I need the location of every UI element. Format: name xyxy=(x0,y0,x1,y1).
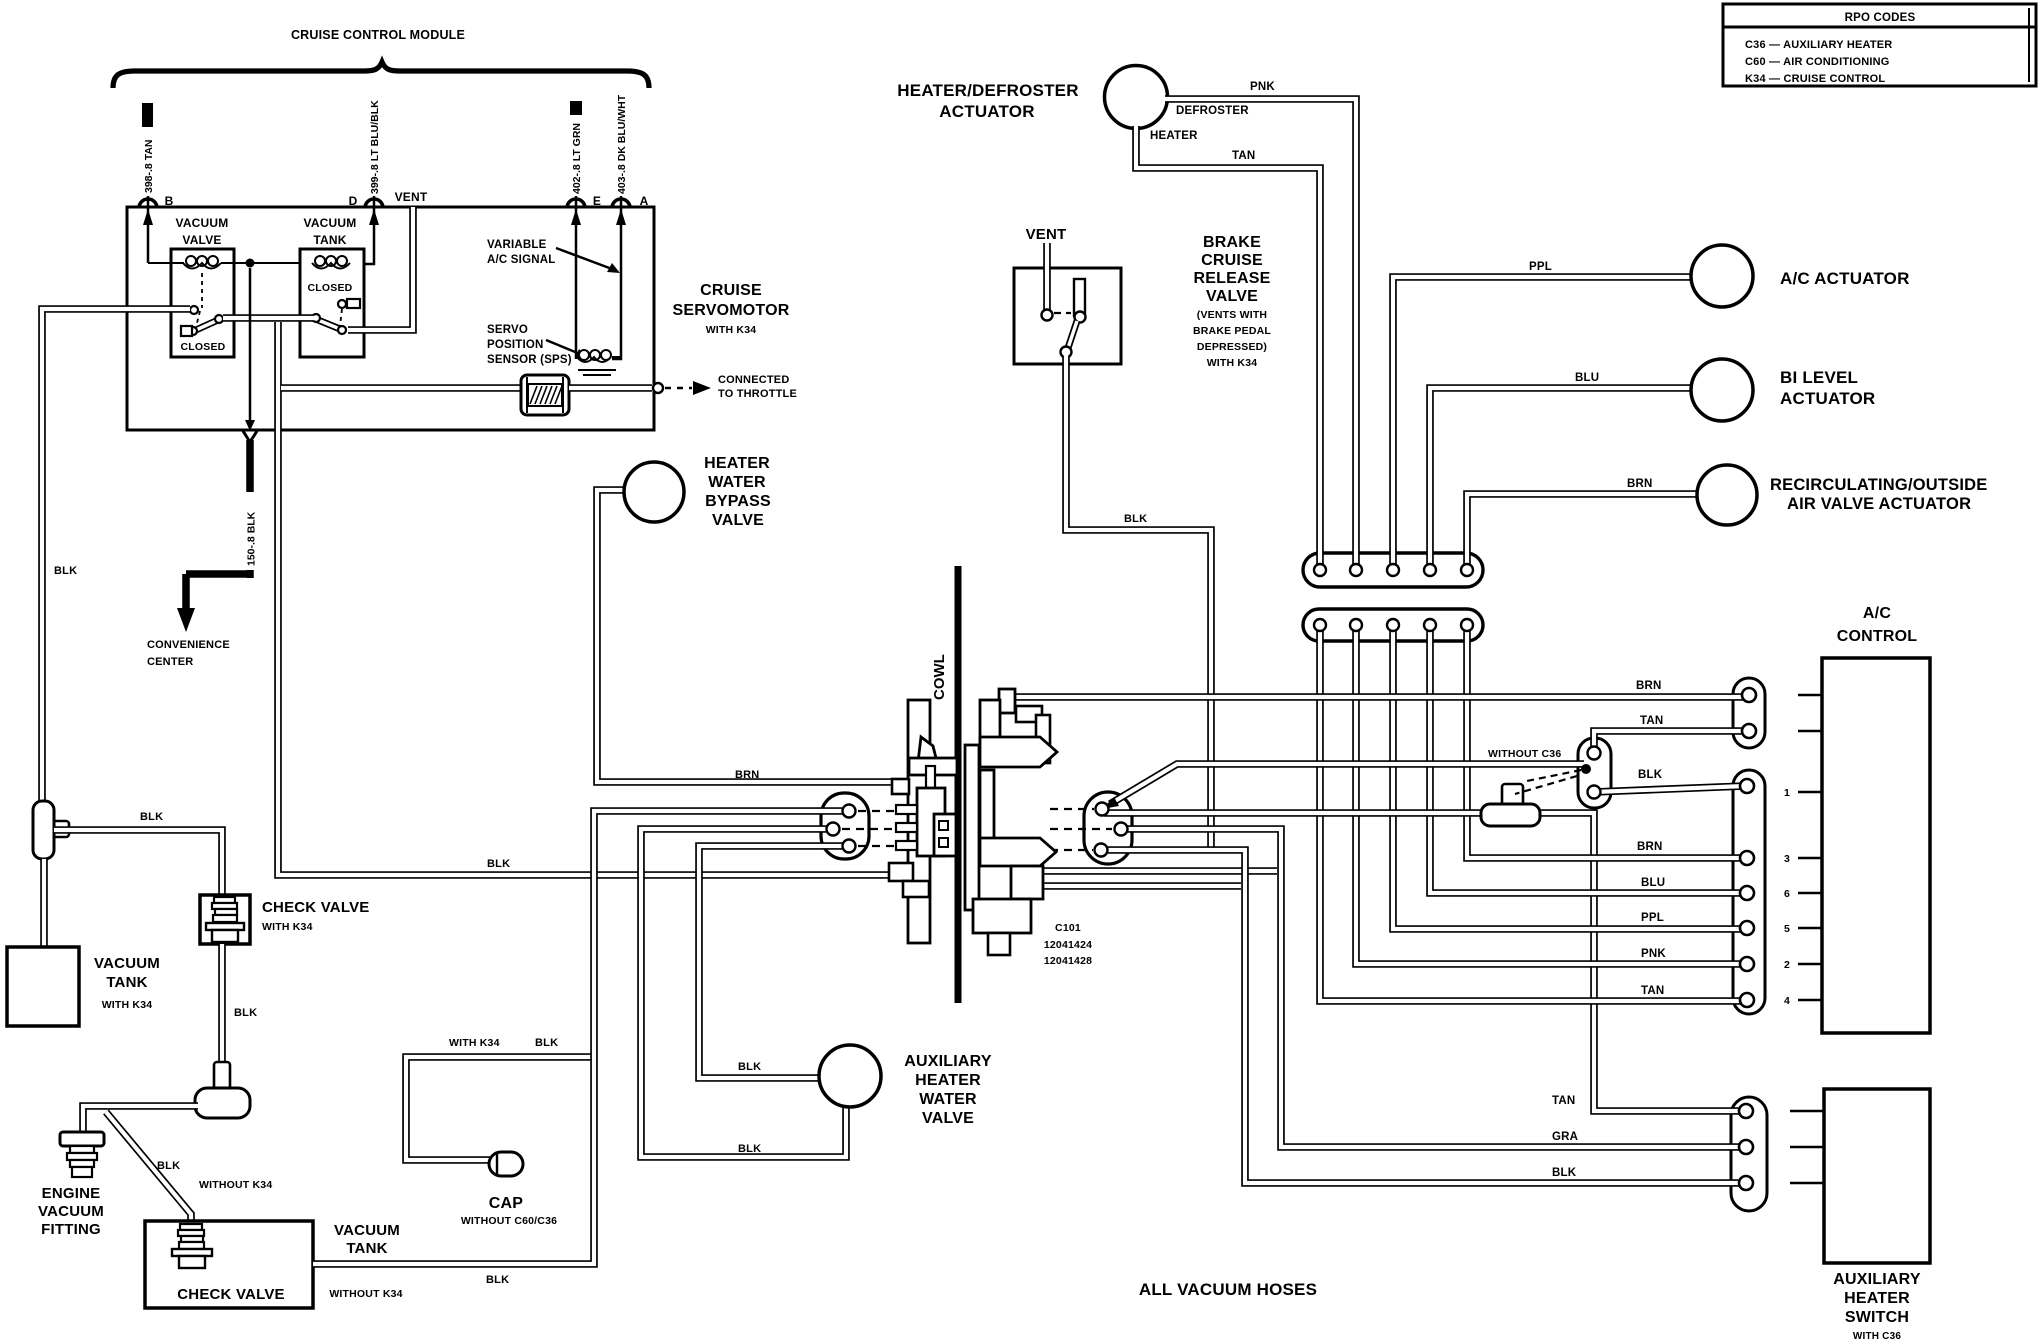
svg-text:6: 6 xyxy=(1784,888,1790,900)
hose oval pin3 to aux water valve left xyxy=(699,846,847,1078)
servo piston xyxy=(521,375,569,415)
svg-text:BRAKE PEDAL: BRAKE PEDAL xyxy=(1193,325,1271,337)
engine vacuum fitting xyxy=(60,1132,104,1146)
svg-text:VACUUM: VACUUM xyxy=(176,216,229,230)
hose V1 TAN manifold2 to AC control 4 xyxy=(1320,631,1745,1001)
svg-text:SENSOR (SPS): SENSOR (SPS) xyxy=(487,354,572,366)
left oval connector body xyxy=(821,793,869,859)
svg-text:12041424: 12041424 xyxy=(1044,939,1092,951)
svg-text:BYPASS: BYPASS xyxy=(705,493,771,510)
tee fitting right xyxy=(1502,784,1523,810)
vacuum valve coil xyxy=(148,262,184,264)
dashed link to throttle xyxy=(665,387,692,390)
cap symbol xyxy=(489,1152,523,1176)
tank flag symbol xyxy=(338,300,346,308)
svg-text:VARIABLE: VARIABLE xyxy=(487,239,547,251)
svg-text:VACUUM: VACUUM xyxy=(38,1203,104,1220)
svg-text:ENGINE: ENGINE xyxy=(42,1185,101,1202)
svg-text:E: E xyxy=(593,194,601,208)
svg-text:CENTER: CENTER xyxy=(147,656,193,668)
hose stadium top TAN to A2 xyxy=(1594,731,1747,750)
hose diagonal without K34 to check valve 2 xyxy=(106,1112,191,1222)
svg-text:TANK: TANK xyxy=(346,1240,387,1257)
coil junction line with dot xyxy=(221,262,312,264)
vacuum manifold 2 body xyxy=(1303,609,1483,641)
svg-text:VENT: VENT xyxy=(1026,226,1067,243)
svg-text:BLK: BLK xyxy=(738,1061,761,1073)
svg-text:PNK: PNK xyxy=(1641,948,1666,960)
svg-text:WITH K34: WITH K34 xyxy=(449,1037,500,1049)
sps arrow xyxy=(546,340,580,354)
servo position sensor coil xyxy=(579,350,589,360)
svg-text:CONNECTED: CONNECTED xyxy=(718,374,789,386)
check valve symbol 2 xyxy=(180,1224,202,1230)
hose module-left BLK down to tee xyxy=(42,309,190,802)
svg-text:BRN: BRN xyxy=(1636,680,1662,692)
cruise control module box xyxy=(127,207,654,430)
svg-text:C60 — AIR CONDITIONING: C60 — AIR CONDITIONING xyxy=(1745,56,1890,68)
svg-text:CRUISE: CRUISE xyxy=(1201,252,1263,269)
svg-text:BLK: BLK xyxy=(140,811,163,823)
hose P2 GRA to aux switch xyxy=(1123,829,1744,1147)
svg-text:150-.8 BLK: 150-.8 BLK xyxy=(246,511,258,566)
svg-text:BRAKE: BRAKE xyxy=(1203,234,1261,251)
servo piston rod left xyxy=(281,384,523,392)
servo piston rod right xyxy=(569,384,652,392)
svg-text:WITH K34: WITH K34 xyxy=(262,921,313,933)
svg-text:CLOSED: CLOSED xyxy=(181,341,226,353)
svg-text:BLK: BLK xyxy=(54,565,77,577)
svg-text:K34 — CRUISE CONTROL: K34 — CRUISE CONTROL xyxy=(1745,73,1885,85)
connector C101 assembly xyxy=(908,700,930,943)
svg-text:WITH C36: WITH C36 xyxy=(1853,1331,1902,1342)
svg-text:WITHOUT K34: WITHOUT K34 xyxy=(199,1179,272,1191)
right oval connector body xyxy=(1084,792,1132,864)
check valve symbol (with K34) xyxy=(200,895,250,944)
svg-text:ACTUATOR: ACTUATOR xyxy=(1780,389,1875,408)
vacuum valve lever xyxy=(190,306,198,314)
svg-text:VALVE: VALVE xyxy=(182,233,221,247)
vacuum tank box (with K34) xyxy=(7,947,79,1026)
svg-text:WITH K34: WITH K34 xyxy=(1207,357,1258,369)
svg-text:CAP: CAP xyxy=(489,1195,524,1212)
svg-text:TAN: TAN xyxy=(1232,150,1255,162)
svg-text:(VENTS WITH: (VENTS WITH xyxy=(1197,309,1267,321)
wire 150-.8 BLK arrow xyxy=(249,268,252,420)
heater/defroster actuator circle xyxy=(1105,66,1168,129)
svg-text:CONVENIENCE: CONVENIENCE xyxy=(147,639,230,651)
bi level actuator circle xyxy=(1691,359,1753,421)
right oval connector pins xyxy=(1096,803,1109,816)
connector B ports xyxy=(1740,779,1754,793)
svg-text:TAN: TAN xyxy=(1552,1095,1575,1107)
svg-text:CRUISE CONTROL MODULE: CRUISE CONTROL MODULE xyxy=(291,28,465,42)
svg-text:BRN: BRN xyxy=(1627,478,1653,490)
svg-text:PNK: PNK xyxy=(1250,81,1275,93)
svg-text:FITTING: FITTING xyxy=(41,1221,101,1238)
svg-text:VALVE: VALVE xyxy=(922,1110,974,1127)
rpo codes box xyxy=(1723,4,2036,86)
svg-text:CHECK VALVE: CHECK VALVE xyxy=(262,899,370,916)
svg-text:399-.8 LT BLU/BLK: 399-.8 LT BLU/BLK xyxy=(369,100,381,194)
svg-text:WATER: WATER xyxy=(919,1091,977,1108)
svg-text:VACUUM: VACUUM xyxy=(334,1222,400,1239)
vacuum valve dashed stem xyxy=(201,273,203,308)
svg-text:WITH K34: WITH K34 xyxy=(706,324,757,336)
svg-text:BLU: BLU xyxy=(1575,372,1599,384)
auxiliary heater water valve circle xyxy=(819,1045,881,1107)
vent tube into module xyxy=(348,207,413,330)
svg-text:12041428: 12041428 xyxy=(1044,955,1092,967)
svg-text:RECIRCULATING/OUTSIDE: RECIRCULATING/OUTSIDE xyxy=(1770,476,1987,494)
svg-text:A/C ACTUATOR: A/C ACTUATOR xyxy=(1780,269,1910,288)
aux switch ticks xyxy=(1790,1110,1824,1112)
svg-text:C36 — AUXILIARY HEATER: C36 — AUXILIARY HEATER xyxy=(1745,39,1892,51)
dashed without C36 links xyxy=(1527,770,1581,781)
svg-text:TAN: TAN xyxy=(1641,985,1664,997)
hose V5 BRN manifold2 to AC control 3 xyxy=(1467,631,1745,858)
svg-text:BLK: BLK xyxy=(157,1160,180,1172)
terminal E wire 402-.8 LT GRN xyxy=(575,196,578,359)
a/c control ticks xyxy=(1798,694,1822,696)
vacuum valve box xyxy=(171,249,234,357)
svg-text:HEATER: HEATER xyxy=(915,1072,981,1089)
svg-text:5: 5 xyxy=(1784,923,1790,935)
svg-text:A/C SIGNAL: A/C SIGNAL xyxy=(487,254,555,266)
hose oval pin2 to aux water valve bottom xyxy=(641,829,846,1157)
svg-text:4: 4 xyxy=(1784,995,1790,1007)
hose BRN C101 to AC control A1 xyxy=(1014,693,1747,701)
hose PPL manifold1 to AC actuator xyxy=(1393,277,1692,572)
svg-text:ALL VACUUM HOSES: ALL VACUUM HOSES xyxy=(1139,1280,1317,1299)
hose BRN manifold1 to recirc xyxy=(1467,494,1698,572)
svg-text:CONTROL: CONTROL xyxy=(1837,628,1918,645)
svg-text:TANK: TANK xyxy=(313,233,346,247)
svg-text:403-.8 DK BLU/WHT: 403-.8 DK BLU/WHT xyxy=(616,94,628,194)
recirculating/outside air valve actuator circle xyxy=(1697,465,1757,525)
svg-text:VACUUM: VACUUM xyxy=(304,216,357,230)
tee fitting lower xyxy=(214,1062,230,1092)
svg-text:2: 2 xyxy=(1784,959,1790,971)
hose tee to engine vacuum fitting xyxy=(83,1106,198,1134)
hose tab2 to BLK vertical xyxy=(1043,882,1241,890)
dashed pins right xyxy=(1050,808,1094,810)
hose brake valve BLK xyxy=(1066,356,1211,849)
hose BLK module to connector C101 xyxy=(278,322,891,875)
hose P3 BLK to aux switch xyxy=(1104,850,1744,1183)
aux heater switch box xyxy=(1824,1089,1930,1263)
a/c control box xyxy=(1822,658,1930,1033)
svg-text:TAN: TAN xyxy=(1640,715,1663,727)
svg-text:DEFROSTER: DEFROSTER xyxy=(1176,105,1249,117)
svg-text:TO THROTTLE: TO THROTTLE xyxy=(718,388,797,400)
hose V2 PNK manifold2 to AC control 2 xyxy=(1356,631,1745,964)
check valve box (without K34) xyxy=(145,1221,313,1308)
svg-text:VALVE: VALVE xyxy=(1206,288,1258,305)
variable a/c signal arrow xyxy=(556,248,612,269)
connector B body xyxy=(1733,770,1765,1014)
hose heater water bypass valve to C101 BRN xyxy=(597,490,895,782)
heater water bypass valve circle xyxy=(624,462,684,522)
svg-text:BRN: BRN xyxy=(1637,841,1663,853)
svg-text:WITHOUT C60/C36: WITHOUT C60/C36 xyxy=(461,1215,557,1227)
svg-text:1: 1 xyxy=(1784,787,1790,799)
svg-text:HEATER: HEATER xyxy=(704,455,770,472)
hose TAN tee to aux switch xyxy=(1540,813,1744,1111)
svg-text:POSITION: POSITION xyxy=(487,339,544,351)
svg-text:BLK: BLK xyxy=(1638,769,1663,781)
svg-text:CHECK VALVE: CHECK VALVE xyxy=(177,1286,285,1303)
svg-text:BLK: BLK xyxy=(487,858,510,870)
vacuum manifold 2 ports xyxy=(1314,619,1326,631)
svg-text:RELEASE: RELEASE xyxy=(1194,270,1271,287)
svg-text:HEATER: HEATER xyxy=(1150,130,1198,142)
svg-text:SERVO: SERVO xyxy=(487,324,528,336)
vacuum tank box (module) xyxy=(300,249,364,357)
svg-text:AUXILIARY: AUXILIARY xyxy=(1833,1271,1921,1288)
svg-text:WITHOUT C36: WITHOUT C36 xyxy=(1488,748,1561,760)
svg-text:COWL: COWL xyxy=(931,654,948,700)
svg-text:AUXILIARY: AUXILIARY xyxy=(904,1053,992,1070)
svg-text:BLK: BLK xyxy=(1124,513,1147,525)
svg-text:AIR VALVE ACTUATOR: AIR VALVE ACTUATOR xyxy=(1787,495,1971,513)
hose BLU manifold1 to bi-level xyxy=(1430,388,1692,572)
hose tee to vacuum tank xyxy=(40,859,48,949)
svg-text:BI LEVEL: BI LEVEL xyxy=(1780,368,1858,387)
svg-text:BLU: BLU xyxy=(1641,877,1665,889)
svg-text:A: A xyxy=(640,194,649,208)
svg-text:D: D xyxy=(349,194,358,208)
tank lever xyxy=(318,320,340,329)
svg-text:BLK: BLK xyxy=(234,1007,257,1019)
svg-text:PPL: PPL xyxy=(1529,261,1552,273)
hose V3 PPL manifold2 to AC control 5 xyxy=(1393,631,1745,929)
svg-text:HEATER/DEFROSTER: HEATER/DEFROSTER xyxy=(897,81,1078,100)
svg-text:A/C: A/C xyxy=(1863,605,1891,622)
svg-text:BLK: BLK xyxy=(535,1037,558,1049)
terminal A wire 403-.8 DK BLU/WHT xyxy=(612,196,621,359)
aux switch connector body xyxy=(1731,1097,1767,1211)
vacuum manifold 1 body xyxy=(1303,553,1483,587)
vacuum tank coil xyxy=(315,256,325,266)
tee fitting left xyxy=(50,821,69,837)
dashed pins left xyxy=(858,810,896,812)
svg-text:BLK: BLK xyxy=(1552,1167,1577,1179)
hose TAN P1 to tee xyxy=(1104,809,1481,817)
svg-text:TANK: TANK xyxy=(106,974,147,991)
svg-text:WATER: WATER xyxy=(708,474,766,491)
svg-text:398-.8 TAN: 398-.8 TAN xyxy=(143,140,155,194)
svg-text:BLK: BLK xyxy=(738,1143,761,1155)
without C36 stadium body xyxy=(1578,738,1611,808)
svg-text:WITH K34: WITH K34 xyxy=(102,999,153,1011)
cowl line xyxy=(955,566,962,1003)
brake valve vent stub xyxy=(1043,243,1051,310)
svg-text:GRA: GRA xyxy=(1552,1131,1578,1143)
hose oval pin1 to check valve2 (without K34) xyxy=(313,811,847,1264)
svg-text:WITHOUT K34: WITHOUT K34 xyxy=(329,1288,402,1300)
a/c actuator circle xyxy=(1691,245,1753,307)
without C36 stadium pins xyxy=(1588,747,1601,760)
svg-text:RPO CODES: RPO CODES xyxy=(1845,12,1916,24)
valve-to-tank tube xyxy=(223,314,314,322)
aux switch connector ports xyxy=(1739,1104,1753,1118)
svg-text:SERVOMOTOR: SERVOMOTOR xyxy=(673,302,790,319)
svg-text:VENT: VENT xyxy=(395,190,428,204)
connector A body xyxy=(1733,678,1765,748)
svg-text:402-.8 LT GRN: 402-.8 LT GRN xyxy=(571,123,583,194)
svg-text:3: 3 xyxy=(1784,853,1790,865)
vacuum manifold 1 ports xyxy=(1314,564,1326,576)
left oval connector pins xyxy=(843,805,856,818)
hose stadium bottom BLK to B1 xyxy=(1594,786,1745,792)
svg-text:PPL: PPL xyxy=(1641,912,1664,924)
brake valve pivot and lever xyxy=(1042,310,1053,321)
svg-text:SWITCH: SWITCH xyxy=(1845,1309,1909,1326)
svg-text:HEATER: HEATER xyxy=(1844,1290,1910,1307)
hose check valve to lower tee xyxy=(218,944,226,1064)
hose without C36 run with arrow xyxy=(1110,764,1584,804)
svg-text:B: B xyxy=(165,194,174,208)
hose tab1 to GRA vertical xyxy=(1043,867,1277,875)
svg-text:CLOSED: CLOSED xyxy=(308,282,353,294)
hose branch to cap (with K34) xyxy=(406,1057,592,1160)
hose PNK defroster xyxy=(1165,99,1356,568)
terminal B wire 398-.8 TAN xyxy=(147,196,150,263)
terminal D wire 399-.8 LT BLU/BLK xyxy=(354,196,374,264)
svg-text:VACUUM: VACUUM xyxy=(94,955,160,972)
svg-text:C101: C101 xyxy=(1055,922,1081,934)
svg-text:CRUISE: CRUISE xyxy=(700,282,762,299)
svg-text:DEPRESSED): DEPRESSED) xyxy=(1197,341,1267,353)
hose V4 BLU manifold2 to AC control 6 xyxy=(1430,631,1745,893)
svg-text:BRN: BRN xyxy=(735,769,759,781)
svg-text:ACTUATOR: ACTUATOR xyxy=(939,102,1034,121)
hose tee to check valve xyxy=(54,830,222,896)
svg-text:BLK: BLK xyxy=(486,1274,509,1286)
cruise control module brace xyxy=(113,62,649,88)
svg-text:VALVE: VALVE xyxy=(712,512,764,529)
brake cruise release valve box xyxy=(1014,268,1121,364)
connector A ports xyxy=(1742,688,1756,702)
hose TAN heater xyxy=(1136,126,1320,568)
